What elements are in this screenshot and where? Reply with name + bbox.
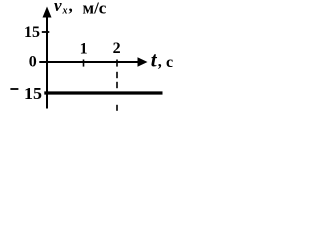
svg-text:1: 1	[80, 41, 88, 58]
svg-text:15: 15	[24, 84, 42, 103]
svg-text:t: t	[151, 48, 158, 72]
svg-text:,: ,	[158, 54, 162, 71]
svg-text:v x , м/с: v x , м/с	[54, 0, 107, 18]
svg-text:0: 0	[29, 53, 37, 70]
svg-text:15: 15	[24, 24, 40, 41]
svg-text:2: 2	[113, 40, 121, 57]
svg-text:с: с	[166, 54, 173, 71]
